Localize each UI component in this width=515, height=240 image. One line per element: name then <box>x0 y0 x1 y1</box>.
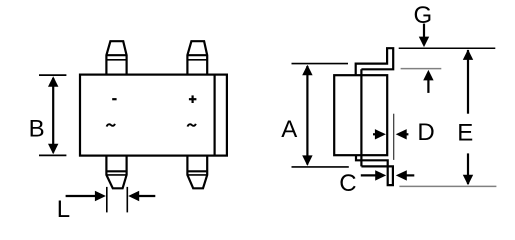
terminal marking minus <box>112 98 116 100</box>
dimension D left arrow <box>373 129 386 139</box>
terminal marking plus <box>189 95 197 103</box>
dimension G down arrow <box>419 24 429 47</box>
package body (side view) <box>334 75 387 155</box>
lead bottom reference line (gray) <box>401 68 442 70</box>
gull-wing lead (top, bent up) <box>356 48 394 75</box>
dimension L extension line right <box>126 187 128 213</box>
polarity band line <box>214 75 216 156</box>
dimension A arrow <box>302 65 312 166</box>
dimension E arrow <box>463 49 473 185</box>
svg-text:B: B <box>29 116 45 143</box>
svg-text:A: A <box>281 116 297 143</box>
dimension B arrow <box>48 76 58 154</box>
dimension B extension line top <box>39 74 66 76</box>
dimension B extension line bottom <box>39 154 66 156</box>
svg-text:L: L <box>57 196 70 219</box>
terminal marking AC right <box>188 124 196 127</box>
lead frame inner vertical line <box>360 69 362 166</box>
dimension D extension line <box>393 114 395 160</box>
dimension L left arrow <box>66 191 106 201</box>
lead top reference line <box>399 47 496 49</box>
seating plane line top (for E) <box>399 185 496 187</box>
package body (front view) <box>80 75 227 156</box>
svg-text:E: E <box>457 120 473 147</box>
svg-text:G: G <box>413 2 432 29</box>
pin 4 lead (bottom-right) <box>187 156 207 189</box>
svg-text:D: D <box>417 119 434 146</box>
dimension A extension line top <box>292 63 349 65</box>
terminal marking AC left <box>107 124 115 127</box>
pin 3 lead (bottom-left) <box>106 156 126 189</box>
gull-wing lead (bottom, bent down) <box>356 155 393 185</box>
dimension L right arrow <box>128 191 155 201</box>
dimension A extension line bottom <box>292 166 349 168</box>
dimension L extension line left <box>106 187 108 213</box>
dimension D right arrow <box>396 129 409 139</box>
dimension G up arrow <box>423 70 433 93</box>
dimension C right arrow <box>396 170 415 180</box>
svg-text:C: C <box>339 170 356 197</box>
dimension C left arrow <box>361 170 386 180</box>
pin 1 lead (top-left) <box>106 41 126 74</box>
pin 2 lead (top-right) <box>187 41 207 74</box>
